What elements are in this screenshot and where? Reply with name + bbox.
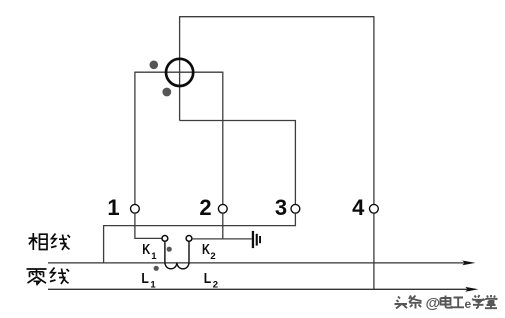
wire: top bus from meter vertical to terminal 4 xyxy=(180,16,374,18)
svg-text:2: 2 xyxy=(199,195,211,220)
svg-text:L: L xyxy=(204,270,212,287)
wire: mid bus to terminal 3 xyxy=(180,120,296,122)
svg-text:1: 1 xyxy=(151,251,157,262)
terminal 1 circle xyxy=(131,204,140,213)
polarity dot near K1 xyxy=(167,247,172,252)
polarity dot upper left of CT xyxy=(150,61,159,70)
svg-text:2: 2 xyxy=(210,251,215,262)
wire: horizontal through current coil xyxy=(135,71,223,73)
wire: terminal 1 top lead xyxy=(134,72,136,205)
svg-text:@: @ xyxy=(426,295,441,312)
terminal 4 circle xyxy=(370,204,379,213)
watermark char: 学 xyxy=(473,295,484,308)
watermark char: 条 xyxy=(409,296,422,309)
线 : silk radical xyxy=(50,268,56,282)
neutral line (ling xian) xyxy=(48,288,469,290)
svg-text:4: 4 xyxy=(352,195,365,220)
svg-text:K: K xyxy=(202,241,210,258)
neutral line arrowhead xyxy=(465,287,478,292)
svg-text:2: 2 xyxy=(213,280,218,291)
线 : right component xyxy=(58,269,69,285)
wire: terminal 3 bottom lead down-left to phase line xyxy=(104,213,296,262)
相 : eye component xyxy=(40,234,48,249)
ground symbol xyxy=(252,231,261,248)
phase line (xiang xian) xyxy=(48,262,466,264)
线 : right component xyxy=(59,235,70,251)
wire: terminal 4 bottom lead to neutral line xyxy=(373,213,375,289)
polarity dot near L1 xyxy=(154,266,159,271)
svg-text:3: 3 xyxy=(275,195,287,220)
零 : rain radical top xyxy=(27,269,47,277)
terminal 3 circle xyxy=(291,204,300,213)
label neutral line text "零线" drawn strokes xyxy=(27,268,70,286)
零 : ling bottom xyxy=(28,277,47,285)
current transformer CT circle xyxy=(166,59,193,86)
CT secondary contact K2 circle xyxy=(186,236,192,242)
线 : silk radical xyxy=(51,234,57,248)
wire: terminal 2 bottom lead xyxy=(222,213,224,239)
wire: terminal 1 bottom lead to K1 xyxy=(135,213,162,238)
polarity dot lower left of CT xyxy=(162,88,171,97)
CT primary winding loops under phase line xyxy=(165,263,189,269)
wire: terminal 2 top lead xyxy=(222,72,224,205)
wire: K1 drop to phase line xyxy=(164,241,166,262)
phase line arrowhead xyxy=(462,261,475,266)
wire: K2 to ground xyxy=(192,238,252,240)
wire: terminal 3 top lead xyxy=(294,120,296,204)
svg-text:L: L xyxy=(141,270,149,287)
watermark "头条 @电工e学堂" xyxy=(395,296,422,309)
svg-text:1: 1 xyxy=(107,195,119,220)
CT secondary contact K1 circle xyxy=(162,236,168,242)
svg-text:e: e xyxy=(465,297,472,311)
svg-text:K: K xyxy=(142,241,150,258)
svg-text:1: 1 xyxy=(150,280,156,291)
terminal 2 circle xyxy=(218,204,227,213)
watermark char: 工 xyxy=(453,298,465,308)
wire: terminal 4 top lead xyxy=(373,16,375,204)
watermark char: 电 xyxy=(441,296,452,308)
watermark char: 头 xyxy=(395,297,408,309)
watermark char: 堂 xyxy=(485,295,497,308)
wire: vertical through current coil down to mid bus xyxy=(179,16,181,120)
相 : wood radical xyxy=(29,233,38,250)
wire: K2 drop to phase line xyxy=(188,241,190,262)
label phase line text "相线" drawn strokes xyxy=(29,233,71,250)
